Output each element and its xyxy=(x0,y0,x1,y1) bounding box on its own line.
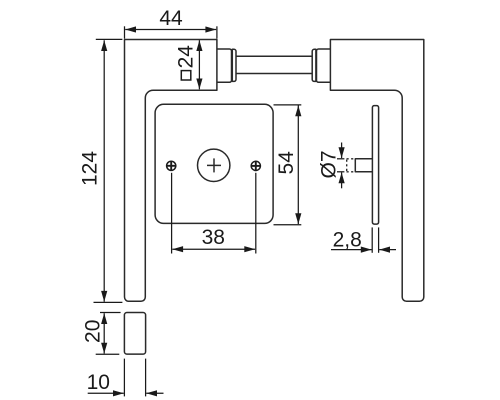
svg-text:10: 10 xyxy=(87,371,110,394)
svg-text:38: 38 xyxy=(202,226,225,249)
svg-text:Ø7: Ø7 xyxy=(318,150,341,178)
svg-text:44: 44 xyxy=(159,7,183,30)
svg-text:124: 124 xyxy=(79,151,102,186)
svg-text:2,8: 2,8 xyxy=(333,228,362,251)
svg-text:24: 24 xyxy=(175,45,198,69)
svg-text:20: 20 xyxy=(82,320,105,343)
svg-text:54: 54 xyxy=(275,151,298,175)
